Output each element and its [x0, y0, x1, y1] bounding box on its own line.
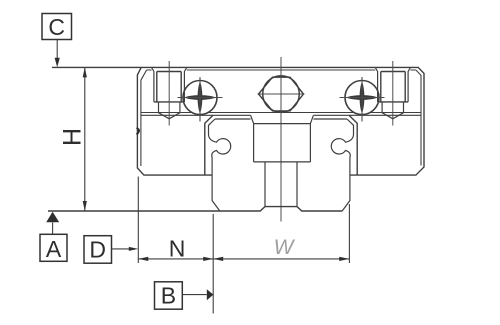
svg-text:N: N — [169, 236, 186, 262]
rail bottom edge + extension to left — [48, 207, 342, 211]
cross hole centerlines left — [178, 77, 223, 122]
cross star right — [346, 81, 378, 113]
datum D box — [84, 236, 112, 264]
rail through hole — [265, 162, 297, 207]
block shelf line lower / rail top — [141, 114, 421, 116]
dimension H arrows — [83, 67, 87, 211]
svg-text:W: W — [274, 236, 296, 259]
B W extension line — [212, 214, 214, 314]
dimension H line — [84, 67, 86, 211]
rail inner chamfer left — [209, 119, 216, 135]
rail groove right — [331, 135, 353, 212]
break mark on left edge — [137, 128, 140, 135]
block shelf line upper — [141, 112, 421, 114]
datum B box — [155, 282, 183, 309]
svg-text:B: B — [161, 282, 176, 308]
datum A triangle — [46, 212, 59, 222]
screw S2 head — [378, 72, 409, 102]
datum B leader — [182, 294, 207, 296]
datum A leader — [52, 223, 54, 235]
N W dimension line — [138, 258, 349, 260]
datum D leader — [112, 248, 131, 250]
datum C leader — [56, 40, 58, 60]
screw S1 hole walls — [152, 68, 187, 102]
block inner contour — [141, 70, 421, 166]
screw S1 shank and cone point — [159, 102, 180, 119]
datum C arrow — [55, 58, 60, 67]
svg-text:D: D — [89, 237, 106, 263]
grease nipple hexagon — [259, 77, 304, 111]
screw S2 centerline — [392, 61, 394, 126]
W right extension line — [348, 204, 350, 263]
grease nipple centerlines — [258, 57, 305, 222]
cross hole circle left — [183, 81, 217, 115]
rail inner chamfer right — [347, 119, 354, 135]
datum C box — [42, 14, 72, 40]
screw S1 head — [154, 72, 185, 102]
rail counterbore — [251, 115, 314, 162]
svg-text:C: C — [48, 14, 65, 40]
screw S2 shank and cone point — [382, 102, 403, 119]
block outer contour — [52, 67, 424, 175]
datum B triangle — [207, 289, 214, 300]
cross hole circle right — [345, 81, 379, 115]
dimension arrows at 138.3 213.2 349.2 — [138, 257, 349, 261]
rail inner top line — [215, 118, 347, 120]
rail groove left — [209, 135, 231, 212]
screw S2 hole walls — [375, 68, 410, 102]
cross hole centerlines right — [340, 77, 385, 122]
svg-text:A: A — [46, 236, 62, 262]
rail outer contour left — [205, 115, 213, 175]
screw S1 centerline — [168, 61, 170, 126]
datum D arrow — [129, 247, 139, 251]
datum A box — [40, 234, 67, 261]
rail outer contour right — [349, 115, 357, 175]
grease nipple circle — [263, 76, 300, 113]
cross star left — [184, 81, 216, 113]
N extension line — [137, 177, 139, 264]
svg-text:H: H — [59, 128, 87, 146]
